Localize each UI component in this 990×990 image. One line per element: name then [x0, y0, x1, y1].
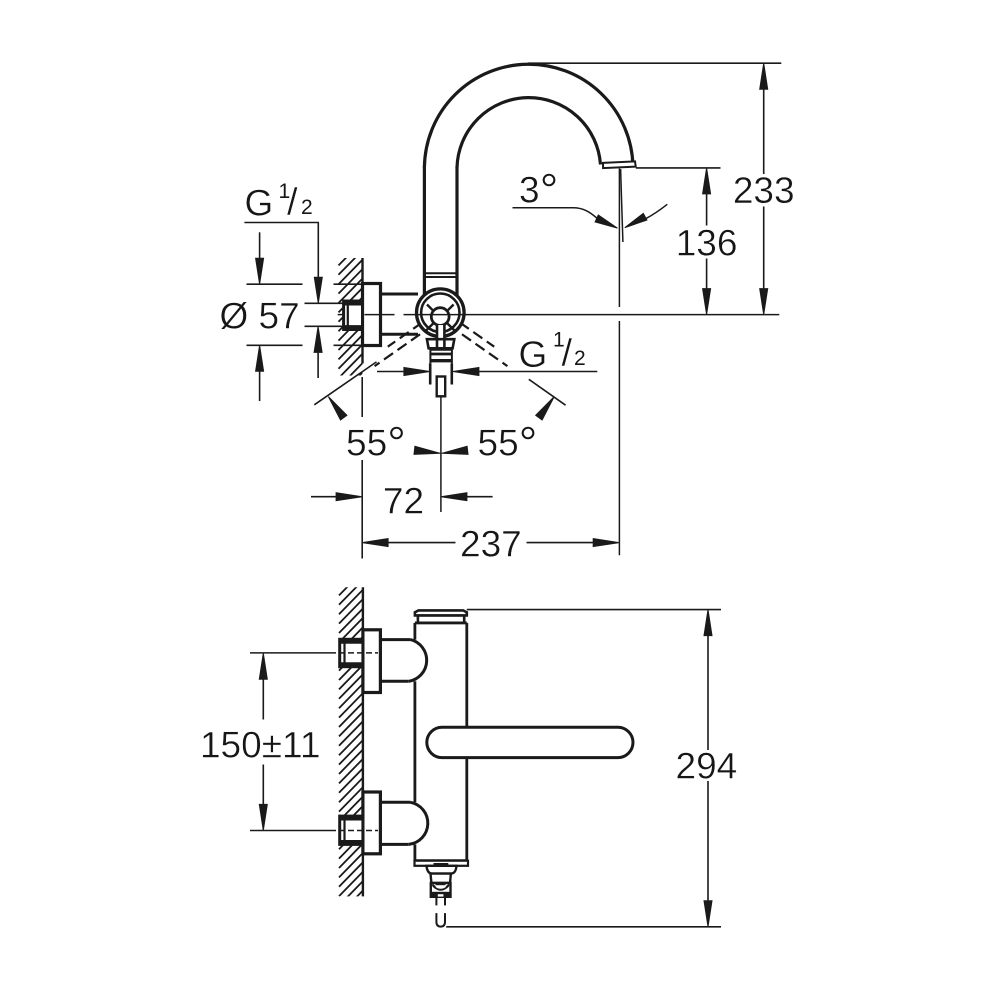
- left 55-degree arc arrow: [328, 397, 347, 420]
- outlet cylinder: [431, 874, 451, 883]
- riser seam lines: [424, 272, 457, 274]
- lower nut centerline: [250, 830, 336, 832]
- inlet pipe to valve body: [381, 293, 419, 296]
- aerator housing: [431, 883, 451, 897]
- upper S-union housing: [380, 638, 410, 641]
- outlet G1/2 dimension right: [453, 368, 479, 376]
- outlet tube lower: [436, 913, 445, 927]
- right 55-degree arc arrow: [536, 397, 555, 420]
- wall hatching (side view): [339, 561, 364, 916]
- dimension 150 plus-minus 11: [259, 653, 267, 679]
- diameter 57 dimension: [259, 232, 261, 260]
- outlet G1/2 dimension left: [377, 371, 406, 373]
- left swivel phantom (dashed outlet): [388, 323, 422, 347]
- upper nut centerline: [250, 652, 336, 654]
- right 55-degree bottom arrow: [442, 446, 468, 454]
- svg-text:55°: 55°: [346, 417, 406, 470]
- spout tip aerator band: [603, 161, 636, 168]
- outlet thread tube: [429, 363, 432, 384]
- svg-text:/: /: [287, 182, 298, 224]
- upper escutcheon (side view): [363, 630, 381, 693]
- svg-text:/: /: [562, 333, 573, 375]
- 3-degree arc arrow: [646, 204, 668, 219]
- wall line (side view): [362, 587, 364, 896]
- upper union nut (side view): [340, 639, 363, 666]
- top reference line: [528, 62, 781, 64]
- lower union nut (side view): [340, 816, 363, 844]
- wall line (front view): [361, 258, 363, 364]
- dimension 233: [760, 63, 768, 89]
- right 55-degree extension line: [529, 379, 566, 405]
- svg-text:150±11: 150±11: [200, 725, 320, 766]
- dimension 136: [703, 168, 711, 194]
- wall extension line (72/237): [361, 377, 363, 417]
- escutcheon flange (front view): [363, 284, 381, 346]
- 3-degree leader: [513, 208, 598, 219]
- cross-handle spokes: [426, 323, 434, 331]
- valve body middle circle: [421, 294, 459, 332]
- 3-degree tilted line: [621, 169, 623, 242]
- base flange plate: [415, 861, 469, 866]
- lower S-union housing: [380, 801, 410, 804]
- body top cap: [415, 610, 467, 615]
- spout outlet reference line: [636, 167, 721, 169]
- outlet pin: [437, 377, 446, 397]
- inlet G1/2 leader and dimension: [244, 222, 319, 224]
- svg-text:136: 136: [676, 223, 738, 264]
- horizontal centerline through valve: [338, 314, 345, 316]
- union nut G1/2 (front view): [344, 301, 363, 330]
- outlet collar bands: [430, 348, 452, 351]
- valve small hub circle: [431, 308, 449, 326]
- svg-text:233: 233: [733, 170, 795, 211]
- outlet vertical centerline: [440, 398, 442, 513]
- dimension 72: [311, 496, 338, 498]
- 294 top extension line: [467, 609, 721, 611]
- svg-text:2: 2: [301, 196, 313, 219]
- dimension 294: [704, 610, 712, 636]
- valve body outer circle: [417, 289, 465, 337]
- flange center seat: [434, 863, 449, 866]
- outlet neck: [427, 339, 454, 348]
- left 55-degree bottom arrow: [414, 446, 440, 454]
- body second cap: [418, 616, 464, 623]
- svg-text:G: G: [519, 334, 548, 375]
- lower escutcheon (side view): [363, 792, 381, 854]
- wall hatching (front view): [339, 231, 364, 398]
- water stream line: [618, 169, 620, 308]
- spout arc outer: [424, 64, 633, 167]
- spout riser pipe: [423, 166, 426, 300]
- faucet body (side view): [415, 622, 467, 625]
- svg-text:72: 72: [383, 481, 424, 522]
- svg-text:237: 237: [460, 524, 522, 565]
- outlet shoulder: [427, 866, 457, 874]
- right swivel phantom (dashed outlet): [460, 323, 494, 347]
- dimension 237: [362, 539, 388, 547]
- spout arc inner: [457, 98, 601, 168]
- 294 bottom extension line: [446, 926, 721, 928]
- svg-text:294: 294: [676, 746, 738, 787]
- left 55-degree extension line: [314, 362, 376, 405]
- outlet tube upper: [435, 897, 437, 906]
- lever handle: [427, 727, 633, 757]
- svg-text:55°: 55°: [478, 417, 538, 470]
- svg-text:G: G: [245, 183, 274, 224]
- valve stem: [437, 325, 444, 347]
- svg-text:Ø 57: Ø 57: [220, 295, 300, 336]
- svg-text:2: 2: [574, 347, 586, 370]
